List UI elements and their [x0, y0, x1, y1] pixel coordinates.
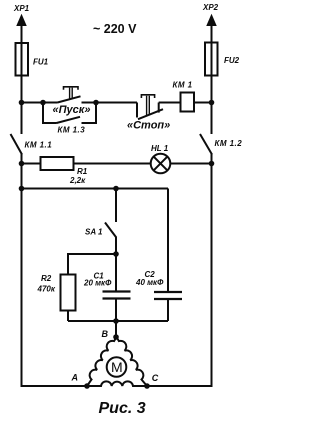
svg-text:«Пуск»: «Пуск» — [53, 104, 91, 116]
wire: R1/HL1 line — [22, 163, 41, 165]
node C — [144, 383, 150, 389]
svg-text:C: C — [152, 373, 159, 383]
contact KM1.3 parallel branch — [43, 103, 57, 124]
wire: left rail lower + bottom left — [22, 154, 88, 386]
svg-text:~ 220 V: ~ 220 V — [93, 22, 137, 36]
wire: bus to node B — [115, 321, 117, 337]
motor circle M — [107, 357, 127, 377]
wire: lower horizontal line to C2 branch — [22, 188, 169, 190]
motor winding bottom (A-C) — [87, 381, 147, 386]
plug XP2 arrow — [211, 20, 213, 43]
svg-text:КМ 1: КМ 1 — [173, 81, 193, 90]
fuse FU1 — [16, 43, 29, 76]
svg-text:XP2: XP2 — [202, 3, 219, 12]
capacitor C2 — [167, 189, 169, 292]
wire: left rail upper (fuse to KM1.1) — [21, 76, 23, 135]
coil KM1 — [181, 93, 195, 112]
wire: right rail lower + bottom right — [147, 154, 212, 386]
svg-text:«Стоп»: «Стоп» — [127, 120, 170, 132]
pushbutton SB Пуск blade — [58, 96, 81, 102]
fuse FU2 — [205, 43, 218, 76]
switch SA1 — [115, 189, 117, 223]
contact KM1.2 blade — [200, 134, 212, 155]
svg-text:КМ 1.2: КМ 1.2 — [215, 139, 243, 148]
junction dots — [19, 100, 25, 106]
motor winding left (A-B) — [87, 337, 117, 386]
svg-text:КМ 1.3: КМ 1.3 — [58, 126, 86, 135]
svg-text:XP1: XP1 — [13, 4, 30, 13]
wire: branch to R2 — [68, 254, 116, 275]
node A — [84, 383, 90, 389]
wire: control line middle segment — [82, 102, 138, 104]
svg-text:В: В — [102, 329, 109, 339]
contact KM1.1 blade — [11, 134, 23, 155]
svg-text:Рис. 3: Рис. 3 — [99, 400, 146, 417]
svg-text:М: М — [111, 359, 123, 375]
svg-text:R2: R2 — [41, 274, 52, 283]
resistor R1 — [41, 157, 74, 170]
pushbutton SB Пуск actuator — [64, 87, 79, 90]
node B — [113, 334, 119, 340]
svg-text:HL 1: HL 1 — [151, 144, 169, 153]
svg-text:470к: 470к — [37, 285, 56, 294]
wire: right rail upper (fuse to KM1.2) — [211, 76, 213, 135]
svg-text:SA 1: SA 1 — [85, 228, 103, 237]
wire: control line left segment — [22, 102, 58, 104]
capacitor C1 — [115, 254, 117, 291]
wire: bottom bus R2-C1-C2 — [68, 320, 168, 322]
lamp HL1 — [151, 154, 171, 174]
plug XP1 arrow — [21, 20, 23, 43]
resistor R2 — [61, 275, 76, 311]
motor winding right (B-C) — [117, 337, 148, 386]
svg-text:40 мкФ: 40 мкФ — [135, 278, 164, 287]
svg-text:КМ 1.1: КМ 1.1 — [25, 141, 53, 150]
pushbutton SB Стоп — [136, 103, 138, 118]
svg-text:R1: R1 — [77, 167, 88, 176]
svg-text:FU1: FU1 — [33, 58, 49, 67]
svg-text:FU2: FU2 — [224, 56, 240, 65]
svg-text:20 мкФ: 20 мкФ — [83, 279, 112, 288]
svg-text:2,2к: 2,2к — [69, 176, 86, 185]
svg-text:А: А — [71, 373, 79, 383]
